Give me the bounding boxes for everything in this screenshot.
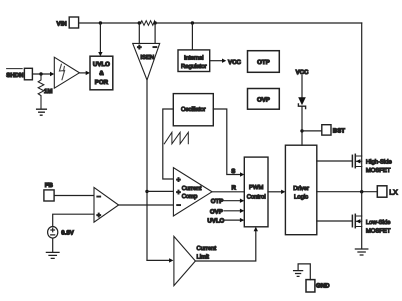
- svg-text:Low-Side: Low-Side: [366, 219, 391, 226]
- wire regulator to VCC: [210, 60, 222, 62]
- svg-text:OTP: OTP: [211, 198, 224, 205]
- block PWM Control: [244, 157, 268, 227]
- ground (low-side source): [355, 249, 367, 255]
- node ISEN to current-comp junction: [145, 190, 148, 193]
- block Internal Regulator: [178, 50, 210, 72]
- svg-text:LX: LX: [389, 190, 398, 197]
- source V 0.8V: [48, 227, 75, 239]
- svg-text:0.8V: 0.8V: [61, 229, 74, 236]
- svg-text:Regulator: Regulator: [181, 63, 207, 70]
- wire GND pin to ground: [298, 264, 310, 280]
- svg-text:PWM: PWM: [249, 184, 263, 191]
- wire comparator to UVLO&POR: [79, 72, 85, 74]
- svg-text:MOSFET: MOSFET: [366, 227, 391, 234]
- svg-text:–: –: [97, 192, 101, 201]
- wire VIN rail: [79, 22, 362, 24]
- wire OTP to PWM: [224, 200, 240, 202]
- wire UVLO to PWM: [225, 219, 240, 221]
- svg-text:FB: FB: [45, 182, 54, 189]
- svg-text:VIN: VIN: [57, 21, 67, 28]
- svg-text:–: –: [153, 42, 157, 51]
- wire junction to BST pin: [302, 130, 322, 132]
- op-amp Current Limit: [174, 236, 217, 285]
- node rail-resistor-right junction: [153, 21, 156, 24]
- resistor on VIN rail: [141, 21, 156, 26]
- sawtooth waveform: [164, 132, 188, 144]
- svg-text:GND: GND: [316, 283, 330, 290]
- ground (GND pin): [294, 271, 303, 277]
- svg-text:&: &: [99, 70, 104, 77]
- svg-text:High-Side: High-Side: [366, 159, 393, 166]
- wire oscillator to current comp: [163, 109, 174, 179]
- svg-text:R: R: [232, 184, 237, 191]
- wire current limit input: [147, 259, 169, 261]
- wire rail to UVLO&POR: [99, 23, 101, 52]
- svg-text:OVP: OVP: [210, 208, 223, 215]
- wire VCC to diode: [301, 76, 303, 98]
- svg-text:Internal: Internal: [184, 55, 204, 62]
- VIN pin: [57, 17, 79, 28]
- node LX junction: [360, 190, 363, 193]
- wire SHDN to comparator: [33, 73, 51, 75]
- resistor R 1M: [38, 74, 52, 109]
- svg-text:Comp: Comp: [182, 193, 198, 200]
- wire OVP to PWM: [224, 210, 240, 212]
- BST pin: [322, 125, 345, 135]
- svg-text:Oscillator: Oscillator: [181, 106, 206, 113]
- SHDN pin: [6, 68, 32, 80]
- wire rail to Internal Regulator: [191, 23, 193, 50]
- svg-text:+: +: [176, 187, 180, 196]
- wire PWM to Driver Logic: [268, 191, 281, 193]
- diode D1: [298, 97, 306, 108]
- comparator U-SHDN with hysteresis: [54, 57, 79, 88]
- wire 0.8V to ground: [52, 238, 54, 252]
- ground (1M resistor): [37, 109, 47, 115]
- node rail-UVLO junction: [99, 21, 102, 24]
- block OTP: [248, 51, 280, 73]
- svg-text:Current: Current: [182, 185, 202, 192]
- svg-text:Logic: Logic: [294, 194, 308, 201]
- wire FB to error amp: [54, 195, 94, 197]
- svg-text:1M: 1M: [44, 88, 52, 95]
- op-amp error amplifier: [94, 187, 119, 222]
- op-amp Current Comp: [173, 168, 212, 216]
- wire rail to ISEN plus: [138, 23, 140, 43]
- svg-text:Limit: Limit: [197, 254, 210, 261]
- svg-text:ISEN: ISEN: [140, 54, 154, 61]
- wire driver to low-side gate: [317, 220, 352, 222]
- node SHDN junction: [39, 72, 42, 75]
- node BST junction: [300, 129, 303, 132]
- block OVP: [248, 89, 280, 110]
- svg-text:+: +: [176, 175, 180, 184]
- wire rail to ISEN minus: [154, 23, 156, 43]
- ground (0.8V source): [46, 252, 59, 258]
- wire oscillator to PWM S input: [213, 109, 240, 175]
- svg-text:MOSFET: MOSFET: [366, 167, 391, 174]
- wire driver to LX: [317, 191, 378, 193]
- FB pin: [44, 182, 54, 201]
- svg-text:UVLO: UVLO: [207, 218, 224, 225]
- wire driver to high-side gate: [317, 160, 352, 162]
- wire VIN rail down through MOSFETs to ground: [361, 23, 363, 249]
- svg-text:Current: Current: [197, 245, 217, 252]
- svg-text:–: –: [177, 200, 181, 209]
- block UVLO & POR: [90, 56, 113, 90]
- wire current limit output to PWM bottom: [195, 231, 255, 261]
- wire error amp output to current comp -: [119, 204, 174, 206]
- wire current comp output to PWM R input: [212, 191, 244, 193]
- svg-text:OVP: OVP: [257, 96, 270, 103]
- svg-text:VCC: VCC: [228, 59, 241, 66]
- op-amp ISEN: [133, 42, 160, 80]
- svg-text:Control: Control: [247, 193, 266, 200]
- svg-text:+: +: [137, 43, 141, 52]
- transistor Q2 low-side: [352, 214, 391, 234]
- block Driver Logic: [285, 145, 316, 235]
- svg-text:S: S: [231, 168, 235, 175]
- svg-text:SHDN: SHDN: [6, 72, 23, 79]
- GND pin: [306, 280, 330, 292]
- node rail-resistor-left junction: [138, 21, 141, 24]
- transistor Q1 high-side: [352, 154, 392, 174]
- wire junction to current comp +: [147, 190, 173, 192]
- svg-text:UVLO: UVLO: [93, 61, 110, 68]
- wire 0.8V to error amp +: [53, 214, 94, 226]
- wire diode to driver logic: [301, 106, 303, 145]
- svg-text:+: +: [97, 210, 101, 219]
- block Oscillator: [173, 94, 213, 126]
- svg-text:BST: BST: [333, 128, 345, 135]
- LX pin: [377, 186, 398, 197]
- node rail-regulator junction: [191, 21, 194, 24]
- wire ISEN output down: [146, 80, 148, 260]
- svg-text:OTP: OTP: [257, 59, 270, 66]
- svg-text:POR: POR: [95, 79, 109, 86]
- svg-text:VCC: VCC: [296, 69, 309, 76]
- svg-text:Driver: Driver: [293, 185, 309, 192]
